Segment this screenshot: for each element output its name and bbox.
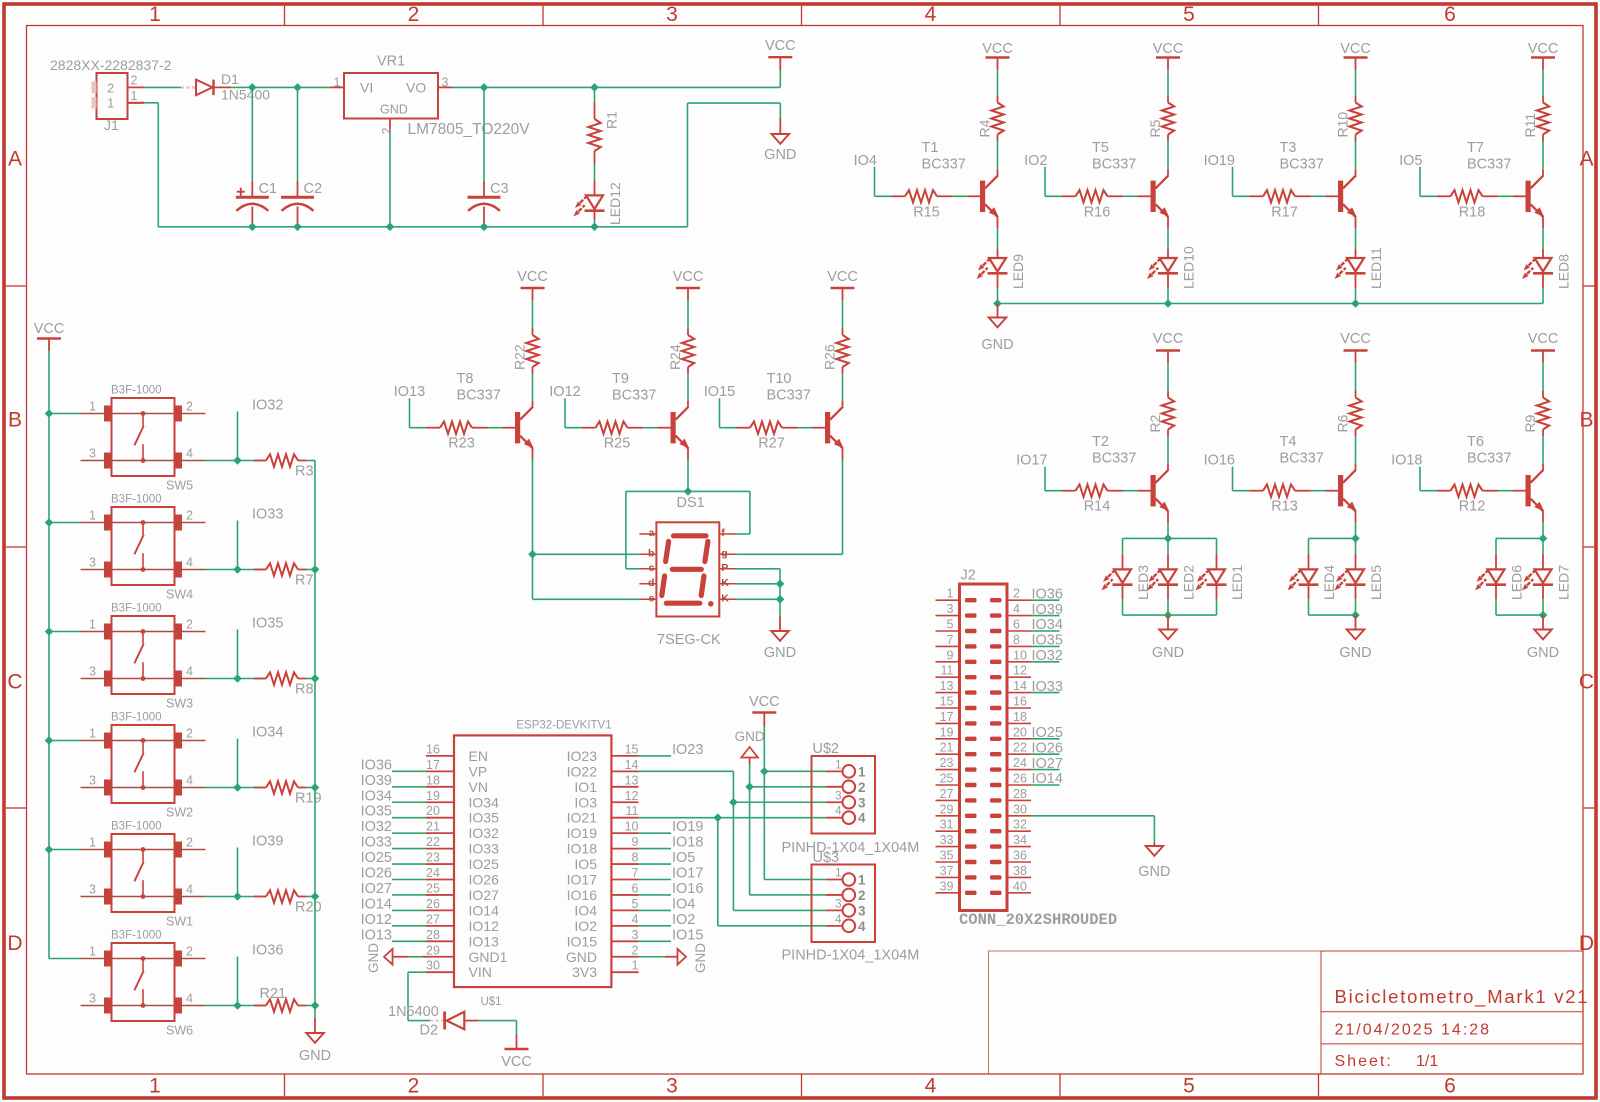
svg-text:T7: T7	[1467, 140, 1484, 156]
junction gnd rail	[311, 783, 320, 792]
svg-text:4: 4	[835, 914, 842, 926]
svg-text:IO25: IO25	[469, 856, 500, 872]
svg-text:7: 7	[632, 866, 639, 880]
svg-text:IO14: IO14	[1032, 771, 1063, 787]
wire net IO35 (esp left)	[392, 817, 426, 819]
header U$3	[812, 865, 876, 943]
svg-text:IO16: IO16	[567, 887, 598, 903]
svg-text:LM7805_TO220V: LM7805_TO220V	[408, 121, 531, 138]
svg-text:GND1: GND1	[469, 949, 508, 965]
junction gnd rail	[311, 674, 320, 683]
junction at C2 top	[293, 83, 302, 92]
svg-text:32: 32	[1013, 818, 1027, 832]
svg-text:14: 14	[1013, 679, 1027, 693]
junction vcc rail SW2	[45, 736, 54, 745]
svg-text:39: 39	[940, 879, 954, 893]
wire T10 emitter to pin g	[736, 458, 842, 554]
svg-text:GND: GND	[693, 943, 708, 973]
diode D1	[181, 80, 231, 96]
svg-text:21: 21	[426, 820, 440, 834]
svg-text:VCC: VCC	[1153, 331, 1184, 347]
svg-text:IO33: IO33	[361, 835, 392, 851]
switch SW1	[81, 834, 206, 912]
svg-text:SW6: SW6	[166, 1024, 193, 1038]
wire IO36 stub	[206, 957, 267, 1006]
svg-text:IO14: IO14	[469, 902, 500, 918]
wire net IO34 (J2)	[1031, 630, 1060, 632]
svg-text:19: 19	[940, 725, 954, 739]
junction IO22	[729, 798, 738, 807]
svg-text:GND: GND	[1527, 645, 1559, 661]
svg-text:GND: GND	[1152, 645, 1184, 661]
title block lines	[1321, 951, 1583, 1074]
svg-text:GND: GND	[380, 103, 408, 117]
vcc supply switches	[34, 321, 65, 351]
svg-text:R24: R24	[667, 344, 683, 370]
svg-text:IO15: IO15	[567, 933, 598, 949]
svg-text:VCC: VCC	[765, 38, 796, 54]
wire net IO14 (J2)	[1031, 784, 1060, 786]
svg-text:1: 1	[89, 945, 96, 959]
svg-text:R12: R12	[1459, 499, 1486, 515]
wire resistor gnd rail	[314, 461, 316, 1019]
svg-text:1N5400: 1N5400	[388, 1004, 439, 1020]
svg-text:3: 3	[835, 790, 841, 802]
resistor R2	[1162, 391, 1174, 470]
svg-text:VCC: VCC	[749, 694, 780, 710]
wire emitter T8	[532, 449, 534, 460]
svg-text:6: 6	[1013, 618, 1020, 632]
resistor R15	[892, 190, 981, 202]
svg-text:PINHD-1X04_1X04M: PINHD-1X04_1X04M	[782, 948, 920, 964]
frame row letters right	[1579, 148, 1594, 956]
svg-text:GND: GND	[764, 645, 796, 661]
svg-text:R2: R2	[1147, 414, 1163, 432]
junction at C1 top	[248, 83, 257, 92]
wire switch vcc rail	[48, 351, 50, 959]
resistor R13	[1250, 485, 1339, 497]
svg-text:K: K	[721, 592, 729, 604]
svg-text:12: 12	[1013, 664, 1027, 678]
svg-text:R17: R17	[1271, 204, 1298, 220]
svg-text:3: 3	[632, 928, 639, 942]
wire branch to U2.1	[764, 770, 826, 772]
svg-text:9: 9	[632, 835, 639, 849]
svg-text:4: 4	[1013, 602, 1020, 616]
svg-text:1: 1	[89, 836, 96, 850]
svg-text:10: 10	[1013, 648, 1027, 662]
svg-text:BC337: BC337	[767, 388, 811, 404]
svg-text:GND: GND	[981, 337, 1013, 353]
wire T8 emitter to pin b	[533, 458, 640, 554]
switch SW4	[81, 507, 206, 585]
svg-text:23: 23	[940, 756, 954, 770]
wire IO12 stub	[565, 398, 582, 428]
svg-text:T8: T8	[457, 371, 474, 387]
svg-text:VIN: VIN	[469, 964, 492, 980]
svg-text:IO32: IO32	[252, 398, 283, 414]
svg-text:T9: T9	[612, 371, 629, 387]
led LED6	[1473, 538, 1506, 615]
wire net IO39 (esp left)	[392, 786, 426, 788]
svg-text:17: 17	[426, 758, 440, 772]
svg-text:R11: R11	[1522, 113, 1538, 138]
resistor R6	[1349, 391, 1361, 470]
wire emitter T1	[997, 217, 999, 249]
svg-text:1: 1	[835, 868, 841, 880]
svg-text:T1: T1	[922, 140, 939, 156]
svg-text:IO19: IO19	[567, 825, 598, 841]
esp32 module U$1	[426, 735, 639, 987]
connector J1	[92, 73, 145, 119]
svg-text:LED2: LED2	[1181, 565, 1197, 600]
vcc supply (T5)	[1156, 58, 1180, 97]
svg-text:25: 25	[426, 881, 440, 895]
resistor R26	[836, 329, 848, 407]
wire led top rail (T4)	[1309, 537, 1356, 539]
svg-text:1: 1	[149, 3, 161, 26]
svg-text:IO4: IO4	[672, 896, 695, 912]
led LED4	[1286, 538, 1319, 615]
svg-text:4: 4	[186, 992, 193, 1006]
svg-text:IO3: IO3	[574, 794, 597, 810]
junction top rail (T2)	[1164, 534, 1173, 543]
svg-text:13: 13	[625, 773, 639, 787]
wire net IO12 (esp left)	[392, 925, 426, 927]
frame column numbers top	[149, 3, 1456, 26]
svg-text:VCC: VCC	[1528, 41, 1559, 57]
svg-text:14: 14	[625, 758, 639, 772]
svg-text:11: 11	[941, 664, 954, 678]
svg-text:R10: R10	[1335, 112, 1351, 138]
wire led bottom rail (T6)	[1496, 614, 1543, 616]
svg-text:U$1: U$1	[480, 996, 501, 1008]
wire net IO36 (esp left)	[392, 770, 426, 772]
svg-text:2: 2	[107, 81, 114, 96]
led LED3	[1100, 538, 1133, 615]
led LED11	[1333, 249, 1366, 304]
title block empty box	[989, 951, 1322, 1074]
svg-text:VCC: VCC	[982, 41, 1013, 57]
svg-text:D2: D2	[420, 1023, 439, 1039]
svg-text:4: 4	[835, 806, 842, 818]
svg-text:1: 1	[89, 618, 96, 632]
svg-text:IO36: IO36	[1032, 586, 1063, 602]
svg-text:36: 36	[1013, 849, 1027, 863]
junction gnd rail	[311, 565, 320, 574]
svg-text:GND: GND	[1339, 645, 1371, 661]
svg-text:4: 4	[632, 912, 639, 926]
wire net IO19 (esp right)	[639, 832, 672, 834]
svg-text:a: a	[649, 527, 655, 539]
wire vcc to SW5	[49, 413, 81, 415]
resistor R12	[1437, 485, 1526, 497]
svg-text:EN: EN	[469, 748, 488, 764]
svg-text:T5: T5	[1092, 140, 1109, 156]
resistor R16	[1062, 190, 1151, 202]
svg-text:SW2: SW2	[166, 806, 193, 820]
svg-text:T3: T3	[1280, 140, 1297, 156]
svg-text:29: 29	[426, 943, 440, 957]
svg-text:D1: D1	[221, 71, 239, 87]
wire IO35 stub	[206, 630, 267, 679]
svg-text:2: 2	[858, 780, 866, 795]
svg-text:5: 5	[1183, 1075, 1195, 1098]
svg-text:d: d	[648, 577, 654, 589]
svg-text:6: 6	[1444, 1075, 1456, 1098]
svg-text:IO19: IO19	[1204, 153, 1235, 169]
svg-text:IO1: IO1	[574, 779, 597, 795]
svg-text:IO2: IO2	[1024, 153, 1047, 169]
wire net IO36 (J2)	[1031, 599, 1060, 601]
svg-text:LED4: LED4	[1321, 565, 1337, 600]
wire led bottom rail (T2)	[1123, 614, 1217, 616]
svg-text:IO34: IO34	[469, 794, 500, 810]
wire T9 emitter to segment node	[687, 458, 689, 491]
svg-text:6: 6	[1444, 3, 1456, 26]
svg-text:R15: R15	[913, 204, 940, 220]
junction vcc rail SW4	[45, 518, 54, 527]
svg-text:BC337: BC337	[1467, 451, 1511, 467]
junction IO32	[233, 456, 242, 465]
svg-text:IO23: IO23	[567, 748, 598, 764]
header U$2	[812, 756, 876, 834]
svg-text:LED11: LED11	[1368, 247, 1384, 289]
svg-text:IO13: IO13	[361, 927, 392, 943]
svg-text:IO12: IO12	[361, 912, 392, 928]
transistor T9	[671, 407, 692, 451]
svg-text:21: 21	[940, 741, 954, 755]
gnd arrow left (GND1)	[384, 949, 426, 965]
svg-text:IO13: IO13	[469, 933, 500, 949]
vcc supply bottom	[505, 1048, 529, 1050]
junction IO39	[233, 892, 242, 901]
junction C2 bottom	[293, 223, 302, 232]
transistor T5	[1151, 175, 1172, 219]
svg-text:IO34: IO34	[361, 788, 392, 804]
wire net IO14 (esp left)	[392, 909, 426, 911]
wire net IO33 (J2)	[1031, 692, 1060, 694]
svg-text:T6: T6	[1467, 434, 1484, 450]
junction GND header	[745, 783, 754, 792]
gnd symbol (T6)	[1534, 615, 1552, 639]
svg-text:BC337: BC337	[457, 388, 501, 404]
svg-text:IO19: IO19	[672, 819, 703, 835]
svg-text:R21: R21	[260, 986, 287, 1002]
wire net IO5 (esp right)	[639, 863, 672, 865]
svg-text:22: 22	[426, 835, 440, 849]
junction C1 bottom	[248, 223, 257, 232]
svg-text:3: 3	[947, 602, 954, 616]
svg-text:B3F-1000: B3F-1000	[111, 494, 162, 506]
svg-text:IO4: IO4	[854, 153, 877, 169]
7-segment display DS1	[639, 522, 736, 616]
wire emitter T9	[687, 449, 689, 460]
wire IO39 stub	[206, 848, 267, 897]
wire net IO18 (esp right)	[639, 848, 672, 850]
svg-text:IO12: IO12	[469, 918, 500, 934]
svg-text:R27: R27	[758, 436, 785, 452]
resistor R4	[991, 96, 1003, 175]
svg-text:c: c	[649, 562, 655, 574]
wire net IO4 (esp right)	[639, 909, 672, 911]
svg-text:LED7: LED7	[1556, 565, 1572, 600]
wire net IO27 (esp left)	[392, 894, 426, 896]
svg-text:IO14: IO14	[361, 896, 392, 912]
gnd symbol top right	[772, 134, 790, 144]
wire vcc to SW1	[49, 849, 81, 851]
svg-text:IO18: IO18	[1391, 453, 1422, 469]
resistor R3	[254, 454, 315, 466]
svg-text:1: 1	[89, 509, 96, 523]
svg-text:10: 10	[625, 820, 639, 834]
diode D2	[430, 1012, 478, 1030]
svg-text:13: 13	[940, 679, 954, 693]
resistor R24	[682, 329, 694, 407]
svg-text:1: 1	[334, 75, 341, 89]
voltage regulator VR1	[330, 73, 452, 135]
svg-text:2: 2	[632, 943, 639, 957]
svg-text:LED10: LED10	[1181, 246, 1197, 289]
svg-text:20: 20	[426, 804, 440, 818]
wire IO17 stub	[1045, 467, 1062, 491]
svg-text:D: D	[7, 932, 22, 955]
junction top rail (T4)	[1351, 534, 1360, 543]
svg-text:IO32: IO32	[469, 825, 500, 841]
svg-text:U$3: U$3	[813, 850, 840, 866]
wire net IO15 (esp right)	[639, 940, 672, 942]
svg-text:28: 28	[426, 928, 440, 942]
junction T8 b node	[528, 550, 537, 559]
svg-text:1N5400: 1N5400	[221, 87, 270, 103]
gnd symbol switches	[306, 1018, 324, 1043]
svg-text:18: 18	[426, 773, 440, 787]
svg-text:LED5: LED5	[1368, 565, 1384, 600]
svg-text:R26: R26	[822, 344, 838, 370]
svg-text:b: b	[648, 547, 654, 559]
svg-text:26: 26	[1013, 772, 1027, 786]
svg-text:5: 5	[1183, 3, 1195, 26]
gnd symbol (T4)	[1347, 615, 1365, 639]
wire VR1 out to VCC	[452, 86, 780, 88]
wire IO22 net (esp row14 to U2.3/U3.3)	[639, 771, 827, 910]
wire vcc to SW4	[49, 522, 81, 524]
svg-text:2: 2	[408, 1075, 420, 1098]
svg-text:IO36: IO36	[361, 757, 392, 773]
junction IO36	[233, 1001, 242, 1010]
svg-text:20: 20	[1013, 725, 1027, 739]
svg-text:4: 4	[186, 556, 193, 570]
svg-text:R4: R4	[977, 119, 993, 137]
svg-text:24: 24	[426, 866, 440, 880]
junction vcc rail SW3	[45, 627, 54, 636]
svg-text:40: 40	[1013, 879, 1027, 893]
wire emitter T2	[1167, 512, 1169, 539]
capacitor C3	[468, 87, 501, 226]
svg-text:34: 34	[1013, 833, 1027, 847]
svg-text:VCC: VCC	[501, 1054, 532, 1070]
svg-text:IO2: IO2	[574, 918, 597, 934]
resistor R21	[254, 999, 315, 1011]
wire led bottom rail (T4)	[1309, 614, 1356, 616]
transistor T4	[1338, 470, 1359, 514]
svg-text:D: D	[1579, 932, 1594, 955]
frame row letters left	[7, 148, 22, 956]
wire K2	[736, 598, 780, 600]
svg-text:2: 2	[1013, 587, 1020, 601]
svg-text:9: 9	[947, 648, 954, 662]
svg-text:IO26: IO26	[469, 872, 500, 888]
wire vcc to SW3	[49, 631, 81, 633]
svg-text:IO16: IO16	[1204, 453, 1235, 469]
svg-text:4: 4	[186, 883, 193, 897]
wire branch to U2.2	[750, 786, 826, 788]
junction IO21	[714, 813, 723, 822]
svg-text:SW5: SW5	[166, 479, 193, 493]
svg-text:1: 1	[632, 959, 639, 973]
svg-text:IO4: IO4	[574, 902, 597, 918]
svg-text:8: 8	[632, 851, 639, 865]
svg-text:LED1: LED1	[1229, 565, 1245, 600]
svg-text:IO2: IO2	[672, 912, 695, 928]
svg-text:B3F-1000: B3F-1000	[111, 930, 162, 942]
wire net IO2 (esp right)	[639, 925, 672, 927]
svg-text:R7: R7	[295, 573, 314, 589]
transistor T3	[1338, 175, 1359, 219]
svg-text:23: 23	[426, 851, 440, 865]
svg-text:LED12: LED12	[607, 182, 623, 225]
resistor R1	[588, 87, 600, 180]
junction bottom rail (T2)	[1164, 611, 1173, 620]
svg-text:VCC: VCC	[517, 269, 548, 285]
vcc supply (T7)	[1531, 58, 1555, 97]
junction VCC header	[760, 767, 769, 776]
svg-text:8: 8	[1013, 633, 1020, 647]
switch SW2	[81, 725, 206, 803]
svg-text:12: 12	[625, 789, 639, 803]
resistor R27	[737, 422, 826, 434]
vcc supply (T1)	[986, 58, 1010, 97]
svg-text:VI: VI	[360, 80, 373, 96]
svg-text:VCC: VCC	[1340, 41, 1371, 57]
resistor R25	[582, 422, 671, 434]
svg-text:26: 26	[426, 897, 440, 911]
svg-text:2: 2	[186, 945, 193, 959]
svg-text:3V3: 3V3	[572, 964, 597, 980]
svg-text:6: 6	[632, 881, 639, 895]
svg-text:R20: R20	[295, 900, 322, 916]
svg-text:28: 28	[1013, 787, 1027, 801]
resistor R20	[254, 890, 315, 902]
svg-text:3: 3	[89, 665, 96, 679]
svg-text:IO16: IO16	[672, 881, 703, 897]
gnd arrow right (GND)	[639, 949, 687, 965]
svg-text:BC337: BC337	[922, 156, 966, 172]
svg-text:7: 7	[947, 633, 954, 647]
gnd symbol DS1	[771, 616, 789, 641]
wire emitter T3	[1355, 217, 1357, 249]
svg-text:B3F-1000: B3F-1000	[111, 712, 162, 724]
svg-text:2: 2	[186, 509, 193, 523]
svg-text:BC337: BC337	[1280, 451, 1324, 467]
wire emitter T7	[1542, 217, 1544, 249]
svg-text:R18: R18	[1459, 204, 1486, 220]
led LED10	[1145, 249, 1178, 304]
wire net IO25 (esp left)	[392, 863, 426, 865]
svg-text:BC337: BC337	[1092, 156, 1136, 172]
svg-text:1: 1	[89, 727, 96, 741]
svg-text:T2: T2	[1092, 434, 1109, 450]
